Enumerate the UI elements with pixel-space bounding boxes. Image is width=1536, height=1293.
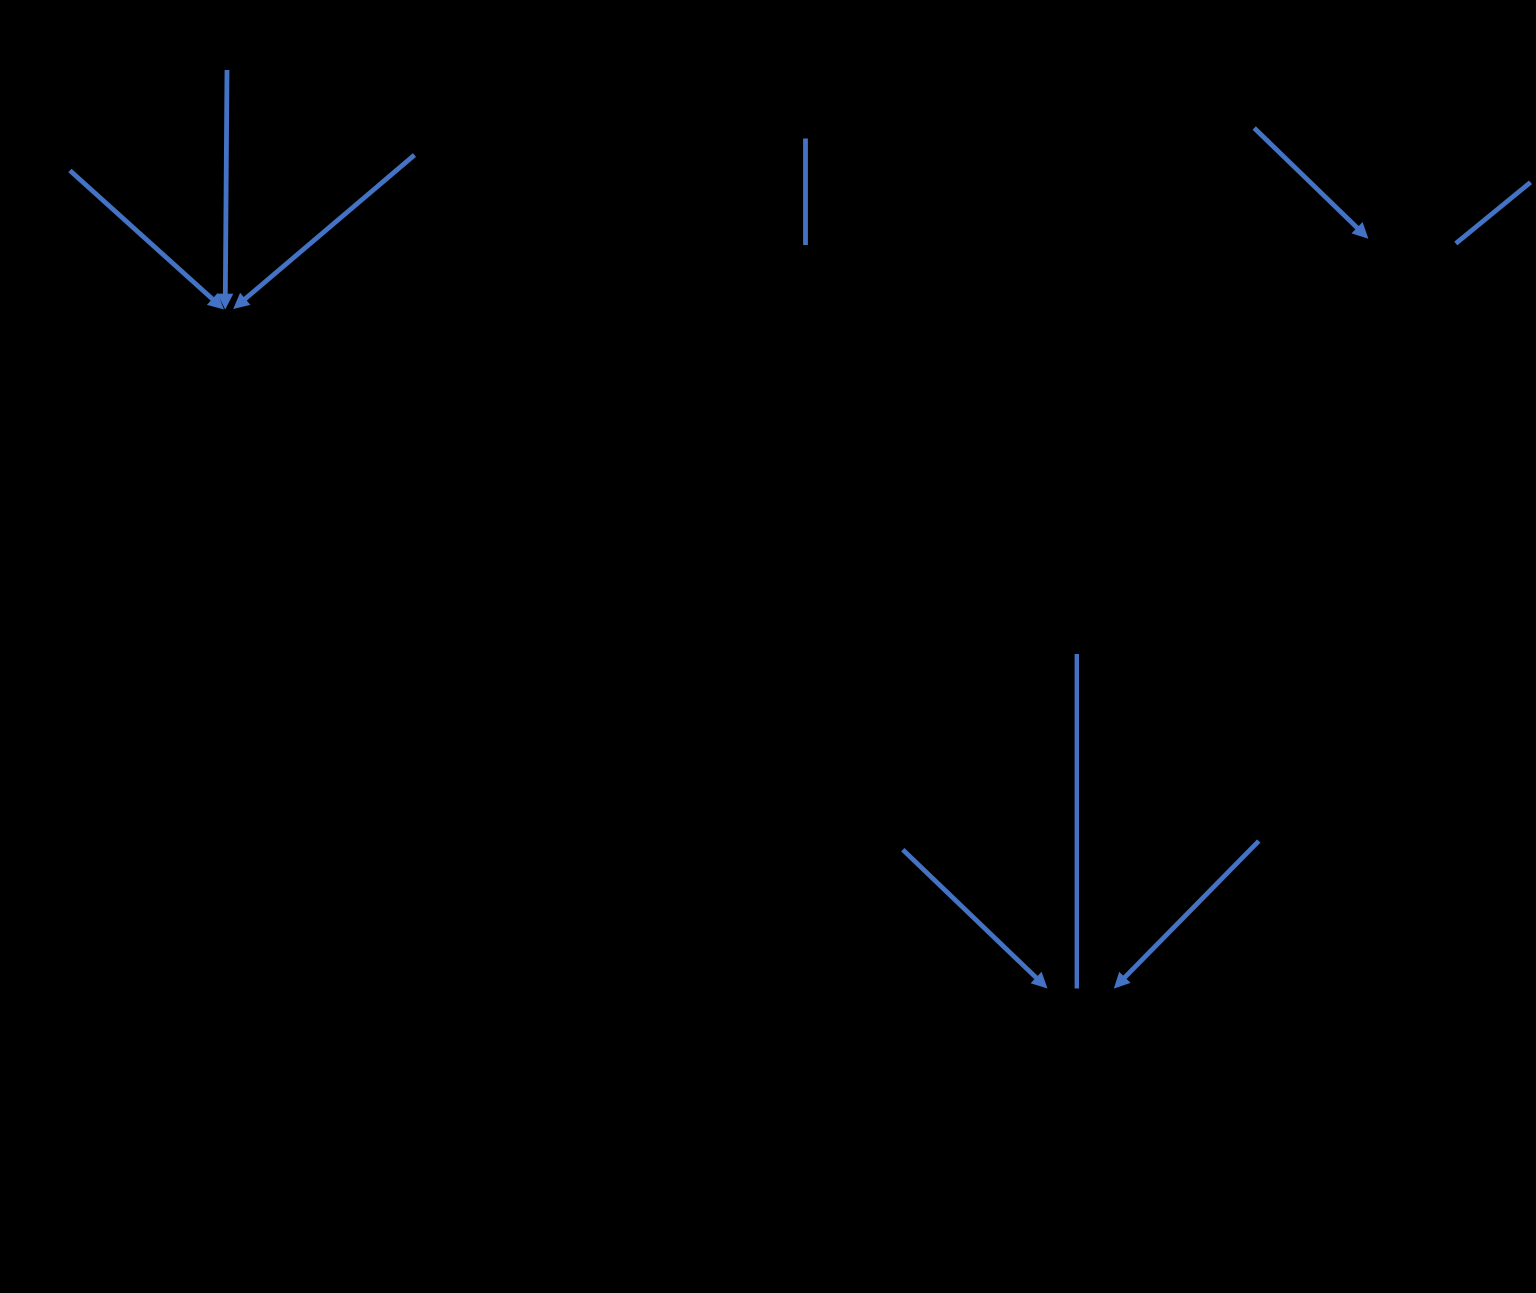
arrow A5 (bottom cluster, from upper-left, head down-right): [903, 850, 1048, 989]
arrow A4 (top-right, head down-right): [1254, 128, 1368, 239]
arrow A1 (top-left cluster, vertical, head down): [217, 70, 233, 310]
wire W2 (top-right short diagonal segment, no head): [1456, 182, 1531, 243]
arrow A2 (top-left cluster, from upper-left, head down-right): [70, 171, 224, 310]
wire W3 (bottom cluster vertical segment, no head): [1075, 654, 1079, 989]
arrow A3 (top-left cluster, from upper-right, head down-left): [233, 155, 414, 309]
arrow A6 (bottom cluster, from upper-right, head down-left): [1114, 841, 1259, 989]
wire W1 (upper middle vertical segment): [803, 139, 808, 246]
